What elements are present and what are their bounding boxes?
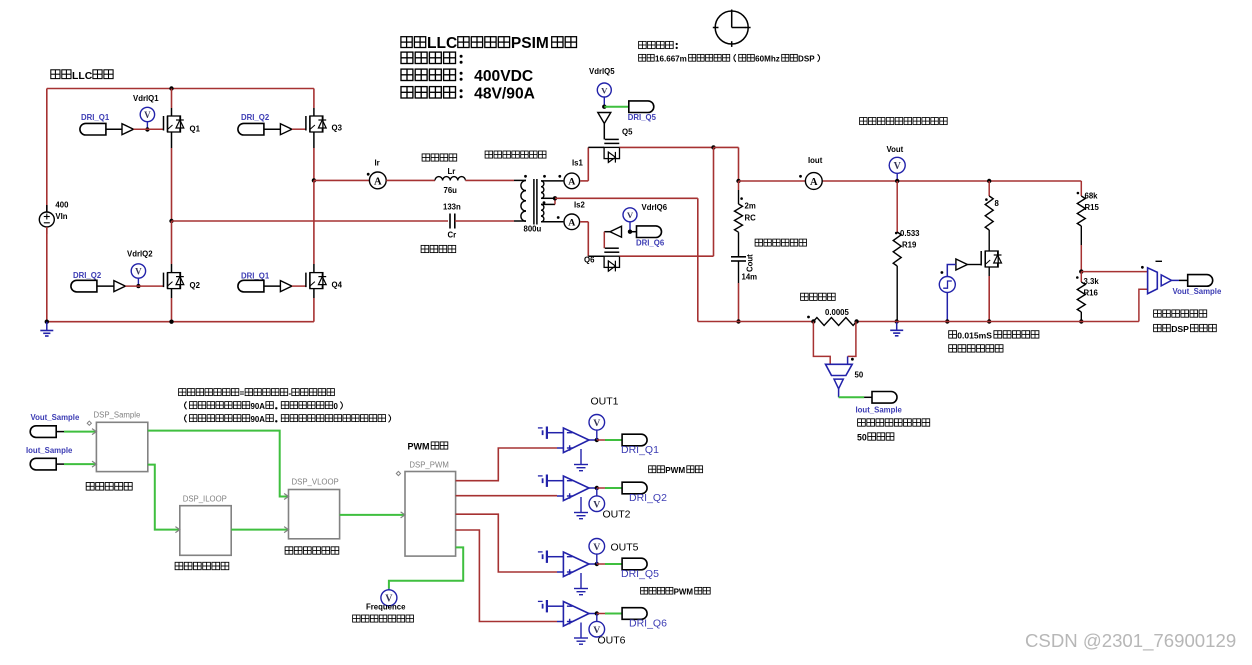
svg-text:Q5: Q5 xyxy=(622,128,633,137)
label Q6 xyxy=(584,256,595,265)
svg-text:V: V xyxy=(135,266,142,276)
wire output to tag U1 xyxy=(597,439,622,441)
wire Q3 drain xyxy=(313,89,315,117)
svg-text:DRI_Q2: DRI_Q2 xyxy=(73,271,102,280)
tag DRI_Q1 input flag at Q4 xyxy=(238,280,281,292)
note vref equation line2 xyxy=(185,402,343,412)
svg-text:50: 50 xyxy=(855,371,864,380)
buffer for Q4 gate xyxy=(280,281,292,292)
wire Q4 gate xyxy=(292,285,306,287)
svg-text:PWM: PWM xyxy=(665,466,685,475)
tag DRI_Q6 output flag xyxy=(622,608,647,620)
svg-text:DRI_Q2: DRI_Q2 xyxy=(629,492,667,504)
label Iout xyxy=(808,156,823,165)
label R15 xyxy=(1085,203,1100,212)
label control frequency monitor port xyxy=(353,615,414,622)
svg-text:V: V xyxy=(894,161,902,172)
svg-text:R16: R16 xyxy=(1084,289,1099,298)
voltage source VIn 400 xyxy=(39,201,69,235)
svg-text:Is2: Is2 xyxy=(574,201,586,210)
title line1 full-bridge LLC digital control PSIM simulation xyxy=(401,35,577,52)
label DRI_Q6 xyxy=(636,239,665,248)
svg-text:DSP_PWM: DSP_PWM xyxy=(409,461,448,470)
label R19 xyxy=(902,241,917,250)
tag Iout_Sample output flag xyxy=(872,392,897,404)
svg-text:Q3: Q3 xyxy=(332,124,343,133)
label DRI_Q5 xyxy=(621,568,659,580)
transistor Q1 xyxy=(164,116,184,132)
wire diff amp to Iout_Sample tag xyxy=(839,396,872,398)
comparator U1 xyxy=(563,428,589,453)
svg-text:A: A xyxy=(568,218,575,229)
wire PWM out4 xyxy=(456,530,557,622)
tag Vout_Sample input flag xyxy=(30,426,64,438)
label DSP_VLOOP xyxy=(292,478,339,487)
tick near R19 xyxy=(895,232,898,235)
wire sense left to diff probe xyxy=(813,322,830,365)
label OUT1 xyxy=(591,396,619,408)
svg-text:Vout: Vout xyxy=(887,145,904,154)
svg-text:=: = xyxy=(240,389,245,398)
tick near R15 xyxy=(1077,192,1080,195)
label DRI_Q2 gate tag xyxy=(73,271,102,280)
wire center tap to return xyxy=(555,198,698,321)
polarity mark at Ir xyxy=(367,173,370,176)
label DRI_Q2 xyxy=(629,492,667,504)
svg-text:Cr: Cr xyxy=(448,231,457,240)
svg-text:Q2: Q2 xyxy=(190,281,201,290)
svg-text:RC: RC xyxy=(745,214,757,223)
svg-text:0.0005: 0.0005 xyxy=(825,308,850,317)
svg-text:DSP_ILOOP: DSP_ILOOP xyxy=(183,495,227,504)
wire comparator U3 output xyxy=(589,562,599,566)
wire plus input stub U1 xyxy=(557,447,563,449)
note vref equation line1 xyxy=(179,389,335,398)
label Is2 xyxy=(574,201,586,210)
wire DSP_PWM freq out to probe xyxy=(389,547,463,588)
wire gating source to buffer xyxy=(947,265,956,277)
svg-text:V: V xyxy=(144,110,151,120)
svg-text:76u: 76u xyxy=(444,186,458,195)
title line3 input voltage 400VDC xyxy=(401,68,533,85)
transformer secondary top winding xyxy=(541,181,544,198)
note differential current sampling xyxy=(858,419,930,426)
svg-text:Q4: Q4 xyxy=(332,281,343,290)
comparator U4 xyxy=(563,602,589,627)
wire PWM out2 xyxy=(456,495,557,497)
svg-text:3.3k: 3.3k xyxy=(1084,277,1100,286)
clock icon xyxy=(713,10,751,47)
label OUT6 xyxy=(598,635,626,647)
node B junction xyxy=(312,178,316,182)
comparator U2 xyxy=(563,476,589,501)
wire bottom rail left xyxy=(47,321,314,323)
wire Q3 gate xyxy=(292,128,306,130)
label DRI_Q1 at Q4 xyxy=(241,272,270,281)
wire output to tag U4 xyxy=(597,613,622,615)
label sampling resistor xyxy=(801,293,836,300)
load resistor 8 branch xyxy=(985,179,993,251)
label VdrlQ6 xyxy=(642,203,668,212)
label Iout_Sample input xyxy=(26,446,73,455)
wire DSP_Sample out1 to DSP_VLOOP xyxy=(148,431,289,497)
label center-tapped transformer xyxy=(485,151,546,158)
polarity mark at diff probe xyxy=(851,358,854,361)
ground at comparator U4 xyxy=(574,623,588,645)
wire probe to DRI_Q5 tag xyxy=(604,106,629,108)
label Is1 xyxy=(572,159,584,168)
label Frequence xyxy=(366,603,406,612)
tag DRI_Q2 input flag xyxy=(71,280,114,292)
label Lr xyxy=(448,167,456,176)
comparator U3 xyxy=(563,552,589,577)
buffer for Q1 gate xyxy=(122,124,134,135)
label output capacitor filtering xyxy=(755,239,806,246)
wire Q5 out to output rail xyxy=(714,147,739,181)
wire sense right to diff probe xyxy=(848,322,856,365)
label voltage loop calculation xyxy=(285,547,339,554)
tag DRI_Q1 output flag xyxy=(622,434,647,446)
svg-text:V: V xyxy=(593,418,600,429)
ground at comparator U2 xyxy=(574,497,588,519)
svg-text:OUT2: OUT2 xyxy=(603,509,631,521)
label resonant inductor xyxy=(422,154,457,161)
tag Iout_Sample input flag xyxy=(30,458,64,470)
label 50 xyxy=(855,371,864,380)
svg-text:A: A xyxy=(374,176,382,187)
tag DRI_Q5 output flag xyxy=(629,101,654,113)
note simulation settings heading xyxy=(639,41,678,49)
label Q3 xyxy=(332,124,343,133)
wire Iout_Sample to DSP_Sample xyxy=(64,463,96,465)
svg-text:Frequence: Frequence xyxy=(366,603,406,612)
wire secondary bottom to Is2 xyxy=(541,221,563,223)
label full-bridge LLC topology xyxy=(51,70,113,82)
wire Q2 drain xyxy=(171,221,173,273)
svg-text:DRI_Q1: DRI_Q1 xyxy=(241,272,270,281)
svg-text:DRI_Q1: DRI_Q1 xyxy=(621,444,659,456)
polarity mark at voltage sense xyxy=(1141,266,1144,269)
inductor Lr xyxy=(435,177,465,181)
svg-text:16.667m: 16.667m xyxy=(655,55,687,64)
note simulation period line xyxy=(639,54,820,63)
label node A wire to Cr xyxy=(172,220,449,222)
wire divider tap to voltage sense xyxy=(1081,271,1147,273)
svg-text:800u: 800u xyxy=(524,225,542,234)
wire Cout to bottom rail xyxy=(736,261,740,324)
label Vout_Sample xyxy=(1173,287,1222,296)
ammeter Iout xyxy=(805,173,822,190)
wire Is1 to Q5 xyxy=(580,147,604,181)
svg-text:DSP_VLOOP: DSP_VLOOP xyxy=(292,478,339,487)
svg-text:68k: 68k xyxy=(1085,192,1099,201)
label DRI_Q2 at Q3 xyxy=(241,113,270,122)
svg-text:60Mhz: 60Mhz xyxy=(755,55,780,64)
tag DRI_Q5 output flag xyxy=(622,558,647,570)
block DSP_VLOOP xyxy=(284,490,340,539)
wire DSP_VLOOP out to DSP_PWM xyxy=(340,514,405,516)
svg-text:Vout_Sample: Vout_Sample xyxy=(31,413,80,422)
wire left rail upper xyxy=(46,89,48,213)
label resonant capacitor xyxy=(421,245,456,252)
polarity mark at sense resistor xyxy=(807,316,810,319)
label 68k xyxy=(1085,192,1099,201)
svg-text:A: A xyxy=(568,177,575,188)
sense resistor 0.0005 xyxy=(811,318,859,326)
wire plus input stub U2 xyxy=(557,495,563,497)
svg-text:8: 8 xyxy=(995,199,1000,208)
svg-text:V: V xyxy=(601,85,608,95)
capacitor Cout xyxy=(731,257,746,261)
wire plus input stub U3 xyxy=(557,571,563,573)
svg-text:48V/90A: 48V/90A xyxy=(474,86,535,103)
label sync rectifier PWM drive xyxy=(641,587,711,596)
svg-text:-: - xyxy=(288,389,291,398)
label RC xyxy=(745,214,757,223)
tick near RC xyxy=(740,197,743,200)
bit source at comparator U4 minus input xyxy=(538,600,564,612)
svg-text:0.533: 0.533 xyxy=(900,229,920,238)
label sampling digitization xyxy=(86,483,132,491)
svg-text:Iout_Sample: Iout_Sample xyxy=(856,406,903,415)
svg-text:V: V xyxy=(627,210,634,220)
junction divider tap xyxy=(1079,269,1083,273)
wire output to tag U3 xyxy=(597,563,622,565)
wire PWM out3 xyxy=(456,514,557,572)
label 3.3k xyxy=(1084,277,1100,286)
label Vout xyxy=(887,145,904,154)
label 0.533 xyxy=(900,229,920,238)
tag DRI_Q2 output flag xyxy=(622,482,647,494)
wire voltage sense to tag xyxy=(1172,279,1188,281)
svg-text:VdrlQ2: VdrlQ2 xyxy=(127,250,153,259)
svg-text:VdrlQ1: VdrlQ1 xyxy=(133,94,159,103)
svg-text:DSP: DSP xyxy=(1171,324,1189,334)
wire bottom output rail xyxy=(698,321,1139,323)
label 133n xyxy=(443,203,461,212)
svg-text:DRI_Q6: DRI_Q6 xyxy=(636,239,665,248)
label Q2 xyxy=(190,281,201,290)
differential current sense amp xyxy=(826,364,853,397)
voltage probe VdrlQ1 xyxy=(140,107,154,131)
tick near R8 xyxy=(985,198,988,201)
svg-text:VdrlQ5: VdrlQ5 xyxy=(589,67,615,76)
wire Q1 source to node A xyxy=(171,132,173,221)
wire Q4 drain xyxy=(313,180,315,272)
svg-text:VIn: VIn xyxy=(55,212,67,221)
svg-text:VdrlQ6: VdrlQ6 xyxy=(642,203,668,212)
ammeter Is2 xyxy=(564,214,580,230)
ground at comparator U3 xyxy=(574,573,588,595)
label 0.0005 xyxy=(825,308,850,317)
svg-text:400: 400 xyxy=(55,201,69,210)
voltage probe VdrlQ5 xyxy=(597,83,611,109)
buffer for Q2 gate xyxy=(114,281,126,292)
title line4 rated output 48V/90A xyxy=(401,86,535,103)
svg-text:R19: R19 xyxy=(902,241,917,250)
buffer for load switch gate xyxy=(956,259,981,270)
wire Q1 drain xyxy=(169,86,173,116)
label Q4 xyxy=(332,281,343,290)
label DRI_Q6 xyxy=(629,617,667,629)
label Ir xyxy=(375,159,380,168)
svg-text:Is1: Is1 xyxy=(572,159,584,168)
svg-text:DRI_Q1: DRI_Q1 xyxy=(81,113,110,122)
transformer core xyxy=(534,179,537,225)
svg-text:R15: R15 xyxy=(1085,203,1100,212)
junction Q5-Q6 outputs xyxy=(711,145,715,149)
label VdrlQ1 xyxy=(133,94,159,103)
ground at input source xyxy=(40,320,53,337)
label 800u xyxy=(524,225,542,234)
wire Q3 source to node B xyxy=(313,132,315,180)
wire DSP_Sample out2 to DSP_ILOOP xyxy=(148,465,180,530)
polarity mark at Iout xyxy=(799,175,802,178)
buffer for Q5 gate xyxy=(598,113,611,124)
label VdrlQ2 xyxy=(127,250,153,259)
svg-text:A: A xyxy=(810,177,818,188)
label current limit loop calculation xyxy=(175,562,229,569)
svg-text:Ir: Ir xyxy=(375,159,380,168)
block DSP_PWM xyxy=(396,471,455,556)
label 2m xyxy=(745,202,756,211)
svg-text:DRI_Q5: DRI_Q5 xyxy=(628,113,657,122)
note 50x amplification xyxy=(857,433,894,443)
tag Vout_Sample output flag xyxy=(1188,275,1213,287)
svg-text:133n: 133n xyxy=(443,203,461,212)
wire Q5 out xyxy=(620,146,714,148)
voltage probe Vout xyxy=(889,157,905,183)
voltage probe Frequence xyxy=(381,589,397,606)
minus mark at voltage sense xyxy=(1156,260,1163,262)
node A junction xyxy=(169,219,173,223)
block DSP_Sample xyxy=(87,421,148,472)
svg-text:0.015mS: 0.015mS xyxy=(957,331,992,341)
wire Ir to Lr xyxy=(386,179,435,181)
label leading-leg PWM drive xyxy=(649,466,703,475)
label DSP_ILOOP xyxy=(183,495,227,504)
wire load switch source xyxy=(987,267,991,324)
label Cout rotated xyxy=(746,254,755,272)
voltage probe OUT5 xyxy=(589,539,605,565)
label DRI_Q1 gate tag xyxy=(81,113,110,122)
label PWM output xyxy=(408,442,448,452)
wire Q2 source xyxy=(169,289,173,324)
wire gating source to rail xyxy=(945,293,949,324)
wire node B to ammeter Ir xyxy=(314,179,370,181)
ground under R19 xyxy=(890,319,903,336)
transformer secondary bottom winding xyxy=(541,204,544,221)
tag DRI_Q2 input flag at Q3 xyxy=(238,123,280,135)
note output divider sampling xyxy=(1154,310,1207,317)
svg-text:Cout: Cout xyxy=(746,254,755,272)
wire comparator U4 output xyxy=(589,611,599,615)
center tap junction xyxy=(553,196,557,200)
load switch transistor xyxy=(981,251,1001,267)
svg-text:PWM: PWM xyxy=(674,588,694,597)
note vref equation line3 xyxy=(185,415,391,425)
buffer for Q6 gate xyxy=(610,226,622,237)
wire bottom rail to voltage sense minus xyxy=(1139,289,1148,321)
voltage probe OUT1 xyxy=(589,415,605,441)
svg-text:V: V xyxy=(593,499,600,510)
label Iout_Sample xyxy=(856,406,903,415)
svg-text:Vout_Sample: Vout_Sample xyxy=(1173,287,1222,296)
wire Q6 out xyxy=(620,147,714,256)
wire top rail xyxy=(47,88,314,90)
wire Cr to transformer primary xyxy=(455,220,526,222)
svg-text:2m: 2m xyxy=(745,202,756,211)
wire left rail lower xyxy=(46,227,48,322)
label 8 xyxy=(995,199,1000,208)
capacitor Cr xyxy=(450,214,455,229)
svg-text:Q1: Q1 xyxy=(190,125,201,134)
voltage probe VdrlQ6 xyxy=(623,208,637,234)
svg-text:14m: 14m xyxy=(742,273,758,282)
wire comparator U2 output xyxy=(589,486,599,490)
ammeter Is1 xyxy=(564,173,580,189)
filter branch RC 2m xyxy=(735,181,743,257)
label DSP_Sample xyxy=(94,411,141,420)
wire Q2 gate xyxy=(125,285,163,287)
label 14m xyxy=(742,273,758,282)
label Q1 xyxy=(190,125,201,134)
wire secondary top to Is1 xyxy=(541,180,563,182)
transistor Q3 xyxy=(306,116,326,132)
svg-text:Iout: Iout xyxy=(808,156,823,165)
svg-text:LLC: LLC xyxy=(72,71,93,82)
svg-text:DRI_Q6: DRI_Q6 xyxy=(629,617,667,629)
note load step line1 xyxy=(949,331,1039,341)
svg-text:DRI_Q2: DRI_Q2 xyxy=(241,113,270,122)
wire PWM out1 xyxy=(456,448,557,481)
polarity mark near gating source xyxy=(941,271,944,274)
resistor R16 branch xyxy=(1077,272,1085,324)
square wave gating source xyxy=(939,277,955,293)
note load step line2 xyxy=(949,345,1003,352)
svg-text:400VDC: 400VDC xyxy=(474,68,533,85)
polarity dots transformer xyxy=(524,175,561,219)
svg-text:50: 50 xyxy=(857,433,867,443)
bit source at comparator U1 minus input xyxy=(538,427,564,439)
wire Vout_Sample to DSP_Sample xyxy=(64,431,96,433)
svg-text:OUT5: OUT5 xyxy=(611,541,639,553)
label VdrlQ5 xyxy=(589,67,615,76)
wire comparator U1 output xyxy=(589,438,599,442)
label DRI_Q1 xyxy=(621,444,659,456)
voltage sense diff amp xyxy=(1148,268,1172,294)
svg-text:0: 0 xyxy=(334,402,339,411)
svg-text:OUT1: OUT1 xyxy=(591,396,619,408)
wire Q4 source xyxy=(313,289,315,322)
svg-text:PSIM: PSIM xyxy=(511,35,549,52)
label DSP_PWM xyxy=(409,461,448,470)
label OUT5 xyxy=(611,541,639,553)
voltage probe OUT2 xyxy=(589,488,605,512)
svg-text:Lr: Lr xyxy=(448,167,456,176)
block DSP_ILOOP xyxy=(175,506,231,556)
transistor Q4 xyxy=(306,273,326,289)
label DRI_Q5 xyxy=(628,113,657,122)
resistor R19 branch xyxy=(893,181,901,322)
svg-text:CSDN @2301_76900129: CSDN @2301_76900129 xyxy=(1025,630,1236,652)
label Cr xyxy=(448,231,457,240)
tag DRI_Q1 input flag xyxy=(80,123,122,135)
wire Is2 to Q6 xyxy=(580,222,604,256)
label Q5 xyxy=(622,128,633,137)
note into DSP controller xyxy=(1154,324,1217,334)
svg-text:DSP_Sample: DSP_Sample xyxy=(94,411,141,420)
